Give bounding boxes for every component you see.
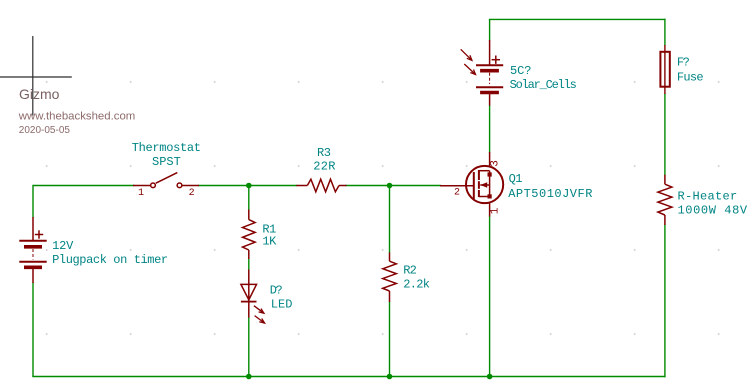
svg-text:2: 2 xyxy=(189,188,195,199)
svg-text:1000W 48V: 1000W 48V xyxy=(678,204,748,218)
svg-text:R-Heater: R-Heater xyxy=(678,190,738,204)
svg-text:R2: R2 xyxy=(403,263,416,277)
svg-text:12V: 12V xyxy=(52,239,74,253)
resistor R3 xyxy=(296,179,346,192)
svg-text:www.thebackshed.com: www.thebackshed.com xyxy=(18,110,136,122)
wire: switch feed left horizontal xyxy=(33,185,135,187)
wire: LED cathode to bottom rail xyxy=(248,317,250,376)
fuse F? xyxy=(660,45,669,94)
svg-text:F?: F? xyxy=(677,55,690,69)
svg-text:1: 1 xyxy=(490,207,502,214)
svg-text:22R: 22R xyxy=(313,160,336,174)
wire: Q1 source to bottom rail xyxy=(489,216,491,377)
resistor R1 xyxy=(243,210,256,260)
svg-text:LED: LED xyxy=(271,297,293,311)
svg-text:Solar_Cells: Solar_Cells xyxy=(510,78,577,92)
svg-text:2.2k: 2.2k xyxy=(403,278,430,292)
resistor R-Heater xyxy=(658,175,672,225)
transistor Q1 xyxy=(440,152,503,217)
wire: junction to R1 top xyxy=(248,185,250,210)
junction at R2/bottom rail xyxy=(387,374,393,380)
svg-text:D?: D? xyxy=(270,283,283,297)
switch SW1 Thermostat SPST xyxy=(133,173,199,188)
wire: top rail xyxy=(489,18,666,20)
battery BT1 12V xyxy=(19,217,46,283)
svg-text:1K: 1K xyxy=(262,235,277,249)
wire: solar cells top stub xyxy=(489,19,491,40)
wire: heater to bottom rail xyxy=(664,225,666,378)
wire: solar cells to Q1 drain xyxy=(489,105,491,153)
junction at switch/R1 node xyxy=(246,183,252,189)
wire: left vertical below battery xyxy=(32,283,34,377)
svg-text:3: 3 xyxy=(490,160,502,167)
wire: R1 bottom to LED anode xyxy=(248,259,250,271)
LED D? xyxy=(241,270,265,324)
svg-text:Gizmo: Gizmo xyxy=(19,86,60,102)
junction at LED/bottom rail xyxy=(246,374,252,380)
svg-text:1: 1 xyxy=(138,188,144,199)
wire: R2 bottom to bottom rail xyxy=(389,302,391,377)
wire: fuse to heater xyxy=(664,94,666,176)
svg-text:Q1: Q1 xyxy=(509,172,523,186)
sheet origin crosshair xyxy=(0,36,72,116)
svg-text:R3: R3 xyxy=(317,146,331,160)
svg-text:2020-05-05: 2020-05-05 xyxy=(19,125,71,136)
solar cells 5C? xyxy=(461,40,504,106)
svg-text:Thermostat: Thermostat xyxy=(132,141,201,155)
wire: switch to R3 horizontal xyxy=(198,185,297,187)
junction at R3/R2/gate node xyxy=(387,183,393,189)
wire: junction to R2 top xyxy=(389,185,391,253)
wire: right vertical top to fuse xyxy=(664,19,666,46)
resistor R2 xyxy=(383,253,397,303)
svg-text:APT5010JVFR: APT5010JVFR xyxy=(508,187,593,201)
svg-text:SPST: SPST xyxy=(152,155,181,169)
svg-text:Fuse: Fuse xyxy=(677,70,704,84)
wire: R3 to Q1 gate horizontal xyxy=(346,185,442,187)
svg-text:2: 2 xyxy=(454,188,460,199)
wire: bottom rail xyxy=(32,376,665,378)
svg-text:5C?: 5C? xyxy=(510,64,531,78)
svg-text:Plugpack on timer: Plugpack on timer xyxy=(52,253,168,267)
wire: left vertical above battery xyxy=(32,185,34,218)
junction at source/bottom rail xyxy=(487,374,493,380)
